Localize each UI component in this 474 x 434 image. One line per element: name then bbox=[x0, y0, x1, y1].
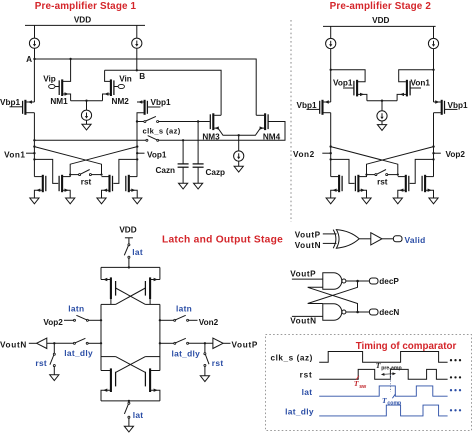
svg-text:decP: decP bbox=[379, 277, 399, 286]
svg-text:Vop1: Vop1 bbox=[333, 78, 353, 87]
svg-text:T: T bbox=[354, 379, 359, 388]
svg-text:Vop2: Vop2 bbox=[43, 318, 63, 327]
svg-text:Von1: Von1 bbox=[411, 78, 431, 87]
svg-text:Pre-amplifier Stage 1: Pre-amplifier Stage 1 bbox=[35, 1, 137, 12]
svg-text:latn: latn bbox=[68, 303, 84, 313]
svg-text:NM1: NM1 bbox=[50, 97, 68, 106]
svg-text:lat: lat bbox=[132, 247, 143, 257]
svg-text:Von2: Von2 bbox=[199, 318, 219, 327]
svg-text:VDD: VDD bbox=[119, 226, 136, 235]
svg-text:lat_dly: lat_dly bbox=[285, 406, 314, 416]
svg-text:VoutN: VoutN bbox=[290, 316, 317, 325]
svg-text:T: T bbox=[382, 396, 387, 405]
svg-text:lat: lat bbox=[133, 410, 144, 420]
svg-text:Vop1: Vop1 bbox=[147, 151, 167, 160]
svg-text:NM3: NM3 bbox=[202, 133, 220, 142]
svg-text:NM4: NM4 bbox=[263, 133, 281, 142]
svg-text:pre-amp: pre-amp bbox=[381, 366, 401, 372]
svg-text:Cazn: Cazn bbox=[156, 166, 176, 175]
svg-text:VoutP: VoutP bbox=[295, 230, 321, 239]
svg-text:Von1: Von1 bbox=[4, 151, 25, 160]
svg-text:Latch and Output Stage: Latch and Output Stage bbox=[162, 235, 283, 246]
svg-text:rst: rst bbox=[212, 358, 224, 368]
svg-text:clk_s (az): clk_s (az) bbox=[143, 127, 181, 136]
svg-text:VoutP: VoutP bbox=[232, 340, 259, 349]
svg-text:Pre-amplifier Stage 2: Pre-amplifier Stage 2 bbox=[330, 1, 432, 12]
svg-text:Vop2: Vop2 bbox=[446, 150, 466, 159]
svg-text:Timing of comparator: Timing of comparator bbox=[356, 341, 457, 352]
svg-text:Vbp1: Vbp1 bbox=[0, 98, 20, 107]
svg-text:decN: decN bbox=[379, 308, 399, 317]
svg-text:rst: rst bbox=[35, 358, 47, 368]
svg-text:lat_dly: lat_dly bbox=[64, 348, 93, 358]
svg-text:Von2: Von2 bbox=[293, 150, 315, 159]
svg-text:Vin: Vin bbox=[119, 75, 132, 84]
svg-text:NM2: NM2 bbox=[112, 97, 130, 106]
svg-text:Cazp: Cazp bbox=[206, 168, 226, 177]
svg-text:rst: rst bbox=[300, 371, 313, 380]
svg-text:Vbp1: Vbp1 bbox=[448, 101, 468, 110]
svg-text:Vbp1: Vbp1 bbox=[151, 98, 171, 107]
svg-text:VoutP: VoutP bbox=[290, 269, 316, 278]
svg-text:clk_s (az): clk_s (az) bbox=[271, 353, 313, 362]
svg-text:comp: comp bbox=[387, 400, 401, 406]
svg-text:Vbp1: Vbp1 bbox=[297, 101, 317, 110]
svg-text:lat_dly: lat_dly bbox=[172, 349, 201, 359]
svg-text:rst: rst bbox=[377, 177, 388, 186]
svg-text:VoutN: VoutN bbox=[295, 241, 322, 250]
svg-text:latn: latn bbox=[176, 303, 192, 313]
svg-text:B: B bbox=[139, 72, 145, 81]
svg-text:A: A bbox=[26, 55, 32, 64]
svg-text:VDD: VDD bbox=[74, 16, 91, 25]
svg-text:rst: rst bbox=[81, 177, 92, 186]
svg-text:lat: lat bbox=[302, 387, 313, 397]
svg-text:T: T bbox=[376, 361, 381, 370]
svg-text:sw: sw bbox=[359, 384, 367, 390]
svg-text:VDD: VDD bbox=[372, 16, 389, 25]
svg-text:Valid: Valid bbox=[405, 235, 426, 245]
svg-text:Vip: Vip bbox=[43, 75, 56, 84]
svg-text:VoutN: VoutN bbox=[0, 340, 27, 349]
